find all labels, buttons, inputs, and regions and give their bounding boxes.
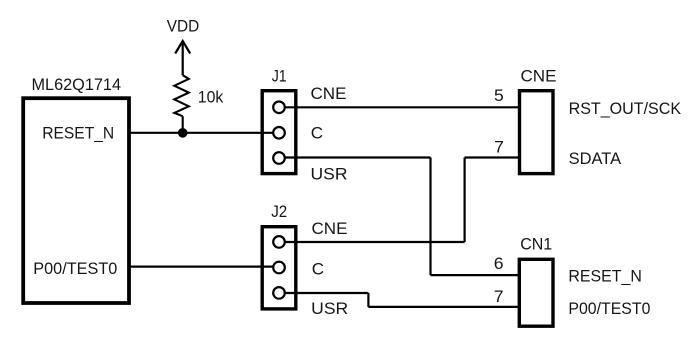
svg-text:CNE: CNE — [312, 219, 348, 238]
svg-text:ML62Q1714: ML62Q1714 — [32, 75, 122, 94]
connector J1 body — [262, 91, 296, 174]
svg-text:7: 7 — [494, 137, 504, 156]
connector CNE body — [520, 91, 554, 174]
svg-text:CNE: CNE — [311, 84, 347, 103]
J2 pin USR circle — [273, 287, 285, 299]
svg-text:RESET_N: RESET_N — [42, 123, 114, 142]
wire J1 USR to CN1 pin 6 (vertical) — [429, 158, 431, 276]
wire J2 CNE to CNE pin 7 (horizontal) — [285, 241, 465, 243]
IC U1 ML62Q1714 body — [23, 98, 129, 303]
wire J1 CNE to CNE pin 5 — [285, 106, 519, 108]
wire J1 USR to CN1 pin 6 (horizontal into CN1) — [431, 274, 520, 276]
wire P00/TEST0 net (IC to J2 pin C) — [129, 266, 273, 268]
svg-text:P00/TEST0: P00/TEST0 — [568, 299, 650, 318]
J1 pin USR circle — [273, 152, 285, 164]
svg-text:C: C — [311, 123, 323, 142]
junction dot node RESET_N — [178, 128, 188, 138]
connector J2 body — [262, 227, 296, 309]
svg-text:P00/TEST0: P00/TEST0 — [33, 259, 117, 278]
wire resistor to junction — [182, 116, 184, 133]
svg-text:CN1: CN1 — [520, 235, 552, 254]
wire RESET_N net (IC to J1 pin C) — [129, 132, 273, 134]
wire J2 USR to CN1 pin 7 (horizontal) — [285, 292, 368, 294]
wire J2 CNE to CNE pin 7 (horizontal into CNE) — [465, 156, 519, 158]
svg-text:USR: USR — [311, 299, 348, 318]
svg-text:J2: J2 — [271, 202, 287, 221]
svg-text:J1: J1 — [272, 67, 287, 86]
wire J2 USR to CN1 pin 7 (horizontal into CN1) — [368, 306, 519, 308]
wire J2 USR to CN1 pin 7 (vertical) — [367, 293, 369, 307]
svg-text:CNE: CNE — [521, 67, 557, 86]
svg-text:6: 6 — [494, 254, 504, 273]
VDD power symbol (arrow) — [175, 41, 190, 75]
wire J1 USR to CN1 pin 6 (horizontal) — [285, 156, 431, 158]
resistor R1 — [174, 75, 189, 116]
svg-text:C: C — [312, 259, 324, 278]
J2 pin CNE circle — [273, 236, 285, 248]
svg-text:RST_OUT/SCK: RST_OUT/SCK — [569, 99, 682, 118]
wire J2 CNE to CNE pin 7 (vertical) — [464, 158, 466, 243]
svg-text:USR: USR — [311, 165, 348, 184]
J2 pin C circle — [273, 262, 285, 274]
J1 pin C circle — [273, 127, 285, 139]
svg-text:VDD: VDD — [167, 17, 200, 36]
svg-text:10k: 10k — [198, 88, 224, 107]
svg-text:SDATA: SDATA — [569, 149, 622, 168]
svg-text:5: 5 — [494, 86, 504, 105]
J1 pin CNE circle — [273, 102, 285, 114]
connector CN1 body — [519, 259, 553, 326]
svg-text:RESET_N: RESET_N — [568, 267, 642, 286]
svg-text:7: 7 — [494, 287, 504, 306]
